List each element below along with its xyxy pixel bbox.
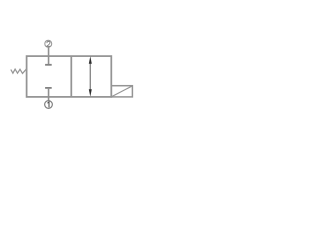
position divider line <box>70 56 72 97</box>
blocked port T (bottom) stem <box>48 88 50 97</box>
wire port 2 to valve body <box>48 47 50 56</box>
solenoid diagonal winding line <box>112 86 132 97</box>
port 2 circle <box>45 40 52 47</box>
wire valve body to port 1 <box>48 97 50 101</box>
valve envelope (two position boxes) <box>27 56 112 97</box>
blocked port T (top, closed position) stem <box>48 56 50 65</box>
port 1 label "1" <box>48 102 50 108</box>
flow path arrow stem (open position) <box>89 60 91 93</box>
blocked port T (bottom) crossbar <box>45 87 52 89</box>
port 1 circle <box>45 101 53 109</box>
port 2 label "2" <box>47 41 50 46</box>
blocked port T (top) crossbar <box>45 64 52 66</box>
flow path arrowhead down <box>89 89 92 96</box>
flow path arrowhead up <box>89 56 92 63</box>
return spring <box>11 69 27 74</box>
solenoid actuator box <box>111 86 132 97</box>
